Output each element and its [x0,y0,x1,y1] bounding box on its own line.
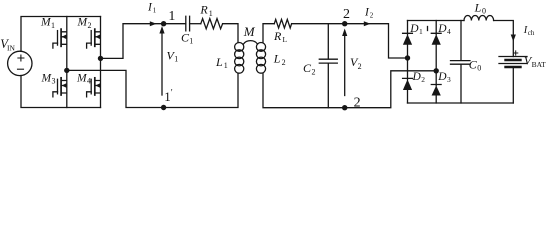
capacitor C2 [319,24,337,108]
svg-text:2: 2 [312,68,316,77]
label L0 [474,0,486,15]
svg-text:4: 4 [447,27,451,36]
transistor M1 [53,17,67,71]
label D4 [437,23,451,36]
label D2 [412,71,426,84]
label V2 [350,55,362,71]
svg-text:0: 0 [482,7,486,16]
wire node 1 to C1 [164,23,186,25]
source VIN [8,51,32,75]
right-leg AC junction dot [434,68,439,73]
svg-text:BAT: BAT [532,60,547,69]
wire VIN top riser and top rail [21,17,101,52]
label L2 [273,51,286,67]
svg-text:1: 1 [209,9,213,18]
svg-text:L: L [215,55,223,69]
separator dash [427,27,429,31]
label C1 [181,30,193,45]
diode D3 [431,71,441,103]
svg-text:1: 1 [224,61,228,70]
wire L0 to battery [494,21,514,57]
battery VBAT [499,57,527,68]
bridge top rail [408,20,465,22]
wire RL to node 2 [292,23,345,25]
node 2' dot [342,105,347,110]
label D3 [437,71,451,84]
VIN minus sign [18,68,24,70]
svg-text:2: 2 [370,11,374,19]
wire L1 bottom [164,73,238,107]
inductor L1 [235,43,244,74]
label Ich [523,25,535,37]
wire node 2 to bridge left-leg junction [345,24,408,58]
wire node B to top link [101,24,164,59]
svg-text:R: R [199,3,208,17]
wire node 2' to bridge right-leg junction [345,71,437,108]
label M1 [40,16,55,29]
svg-text:ch: ch [528,29,535,37]
bridge bottom rail [408,102,514,104]
label M4 [76,72,91,85]
voltage arrow V2 [344,35,346,96]
svg-text:2: 2 [421,75,425,84]
svg-text:D: D [437,71,447,83]
label D1 [409,23,423,36]
svg-text:1: 1 [153,6,157,14]
svg-text:2: 2 [88,21,92,30]
coupling arc [244,41,258,44]
label C0 [469,57,482,72]
label node 1' [164,88,173,105]
transistor M4 [87,58,101,107]
svg-text:1: 1 [51,21,55,30]
voltage arrow V1 [161,33,163,96]
left-leg AC junction dot [405,55,410,60]
resistor RL [274,19,291,28]
svg-text:3: 3 [52,77,56,86]
svg-text:IN: IN [7,43,15,52]
label L1 [215,55,228,70]
svg-text:1: 1 [174,55,178,64]
label VIN [0,37,15,52]
wire R1 to L1 [223,24,238,43]
svg-text:1: 1 [189,37,193,46]
svg-text:′: ′ [171,88,173,98]
svg-text:L: L [474,0,482,14]
svg-text:R: R [273,29,282,43]
svg-text:1: 1 [164,89,171,104]
svg-text:0: 0 [477,64,481,73]
capacitor C0 [451,21,471,104]
node A junction dot [64,68,69,73]
svg-text:2: 2 [358,62,362,71]
current arrow Ich [511,35,516,42]
label V1 [167,48,179,63]
svg-text:D: D [412,71,422,83]
svg-text:D: D [437,23,447,35]
label node 2 top [343,7,350,22]
node 2 dot [342,21,347,26]
transistor M2 [87,17,101,59]
inductor L0 [464,15,494,20]
diode D2 [403,58,413,103]
wire VIN bottom riser and bottom rail [21,76,101,108]
diode D1 [403,21,413,59]
wire C1 to R1 [190,23,201,25]
svg-text:2: 2 [343,7,350,22]
wire L2 top lead [263,24,274,43]
current arrow I2 [364,21,371,26]
mutual coupling label M [243,24,256,39]
label node 1 [168,9,175,24]
svg-text:1: 1 [419,27,423,36]
wire L2 bottom lead [263,73,345,108]
diode D4 [431,21,441,71]
wire node A to bottom link [67,70,164,107]
svg-text:L: L [283,35,288,44]
svg-text:1: 1 [168,9,175,24]
svg-text:D: D [409,23,419,35]
battery VBAT plus sign [514,51,518,55]
node 1 dot [161,21,166,26]
transistor M3 [53,70,67,107]
svg-text:3: 3 [447,75,451,84]
svg-text:M: M [243,24,256,39]
resistor R1 [201,19,223,29]
label M2 [77,16,92,29]
label M3 [41,72,56,85]
svg-text:4: 4 [87,77,91,86]
inductor L2 [256,43,265,74]
current arrow I1 [150,21,157,26]
svg-text:2: 2 [282,58,286,67]
label node 2 bottom [354,95,361,110]
label R1 [199,3,212,18]
label VBAT [524,53,546,69]
wire battery to bottom rail [512,67,514,103]
label I1 [147,1,157,14]
capacitor C1 [186,16,190,31]
svg-text:L: L [273,51,281,65]
node 1' dot [161,105,166,110]
node B junction dot [98,56,103,61]
VIN plus sign [18,55,24,61]
label RL [273,29,288,44]
label I2 [364,6,374,19]
label C2 [303,61,316,77]
